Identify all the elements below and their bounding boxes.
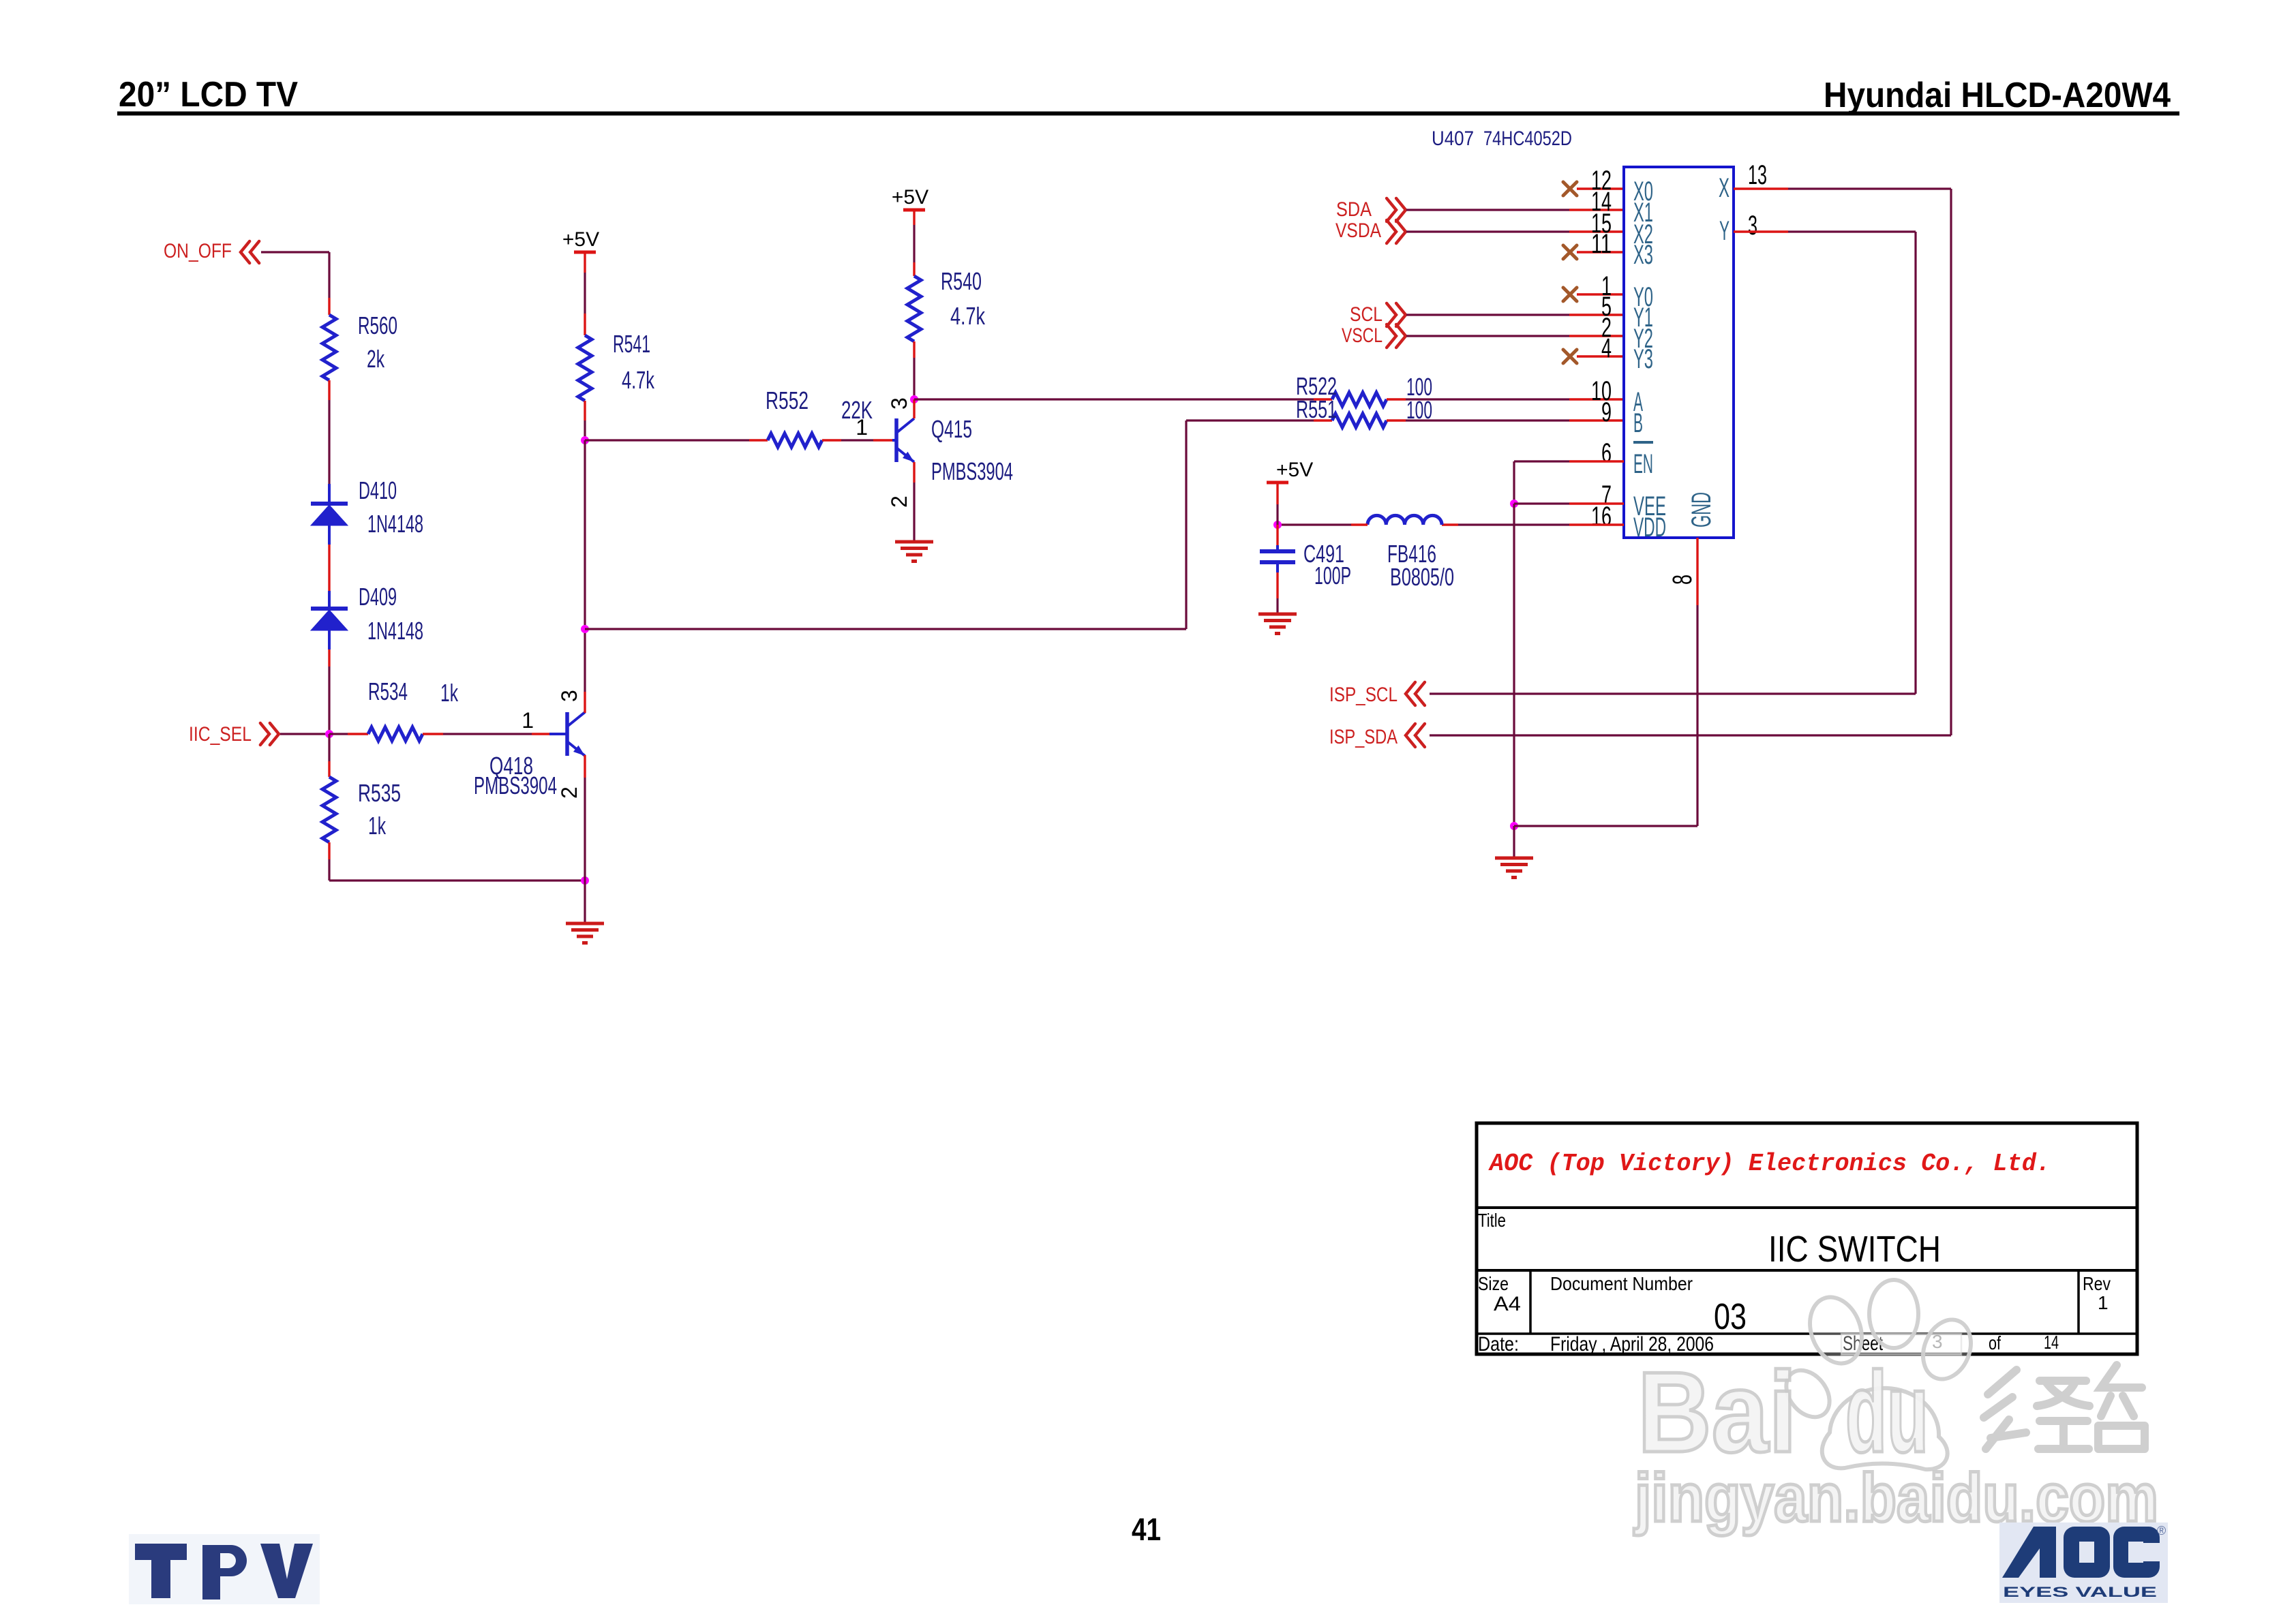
- IC U407 74HC4052D body: [1624, 167, 1734, 538]
- wire SCL to pin Y1: [1406, 313, 1569, 316]
- watermark chinese characters: [1984, 1365, 2145, 1449]
- svg-text:14: 14: [2044, 1332, 2059, 1353]
- pin stub D409 bottom: [328, 649, 330, 667]
- pin stub R540 top: [913, 262, 915, 276]
- pin stub Q418 emitter: [584, 755, 586, 778]
- junction Q415 collector node: [910, 395, 918, 403]
- wire R522 to pin A: [1406, 398, 1569, 400]
- pin stub U407 Y2: [1569, 335, 1624, 337]
- pin stub R552 left: [749, 439, 768, 441]
- wire EN down to VEE node: [1513, 461, 1515, 504]
- svg-text:4.7k: 4.7k: [950, 302, 986, 330]
- junction node B: [581, 625, 589, 633]
- watermark Baidu text: [1633, 1348, 2158, 1536]
- pin stub R541 bottom: [584, 401, 586, 420]
- svg-text:100: 100: [1406, 396, 1432, 424]
- svg-text:1k: 1k: [440, 679, 459, 707]
- ground below Q415: [895, 542, 933, 562]
- junction node R541/R552: [581, 436, 589, 444]
- header underline: [117, 112, 2179, 116]
- pin stub C491 top: [1276, 525, 1278, 545]
- pin stub U407 X2: [1569, 230, 1624, 232]
- ISP_SCL off-page arrow: [1406, 682, 1425, 705]
- wire node B across to R551 branch: [585, 628, 1186, 630]
- svg-text:X3: X3: [1633, 240, 1653, 270]
- no-connect X on pin Y3: [1563, 350, 1577, 363]
- +5V supply above C491: [1267, 481, 1288, 485]
- wire ISP_SCL row: [1430, 692, 1916, 694]
- pin stub Q418 base: [532, 733, 549, 735]
- svg-text:16: 16: [1591, 502, 1612, 532]
- wire X out right: [1788, 187, 1951, 189]
- logo TPV: [129, 1534, 320, 1604]
- wire D410 to D409: [328, 545, 330, 591]
- svg-text:of: of: [1989, 1332, 2001, 1353]
- wire up to R551 row: [1185, 420, 1187, 629]
- svg-text:R534: R534: [368, 677, 408, 705]
- junction ground node: [1510, 822, 1518, 830]
- svg-text:1: 1: [856, 415, 868, 440]
- wire D409 to IIC_SEL node: [328, 667, 330, 734]
- pin stub R552 right: [822, 439, 841, 441]
- svg-text:IIC_SEL: IIC_SEL: [189, 723, 252, 746]
- wire C491 to ground: [1276, 598, 1278, 614]
- wire ISP_SDA row: [1430, 734, 1951, 736]
- svg-text:B: B: [1633, 408, 1643, 438]
- svg-text:Date:: Date:: [1478, 1333, 1519, 1356]
- wire R551 to pin B: [1406, 419, 1569, 421]
- title block: [1477, 1123, 2137, 1354]
- +5V supply above R540: [903, 209, 925, 212]
- ground below C491: [1258, 614, 1297, 634]
- svg-text:EYES VALUE: EYES VALUE: [2003, 1585, 2157, 1600]
- ON_OFF off-page arrow: [241, 241, 259, 263]
- resistor R560 body: [322, 315, 336, 380]
- pin stub U407 VDD: [1569, 523, 1624, 525]
- wire bottom across to Q418 emitter: [329, 879, 585, 881]
- wire collector node to R522: [914, 398, 1314, 400]
- svg-text:Bai: Bai: [1637, 1348, 1797, 1476]
- svg-text:2: 2: [557, 786, 581, 799]
- pin stub U407 Y3: [1577, 355, 1624, 357]
- Q418 base lead: [549, 733, 567, 735]
- svg-text:13: 13: [1748, 160, 1767, 190]
- svg-text:9: 9: [1601, 397, 1612, 427]
- pin stub U407 X0: [1577, 187, 1624, 189]
- pin stub U407 X out: [1734, 187, 1788, 189]
- wire Q418 emitter down: [584, 778, 586, 881]
- junction EN/VEE node: [1510, 500, 1518, 508]
- resistor R552 body: [768, 433, 822, 447]
- svg-text:4.7k: 4.7k: [622, 366, 655, 394]
- wire VEE node down to ground node: [1513, 504, 1515, 826]
- svg-text:A4: A4: [1494, 1293, 1521, 1315]
- pin stub U407 pin B: [1569, 419, 1624, 421]
- svg-text:1k: 1k: [368, 812, 387, 840]
- pin stub U407 Y1: [1569, 313, 1624, 316]
- svg-text:GND: GND: [1687, 492, 1717, 527]
- svg-text:Title: Title: [1478, 1210, 1506, 1231]
- logo AOC: [1999, 1522, 2168, 1603]
- svg-text:R560: R560: [358, 311, 397, 339]
- pin stub U407 Y0: [1577, 293, 1624, 295]
- ground below U407: [1495, 858, 1533, 878]
- wire node A down to node B: [584, 440, 586, 629]
- svg-text:Q415: Q415: [931, 415, 972, 443]
- svg-text:PMBS3904: PMBS3904: [931, 457, 1013, 485]
- pin stub Q415 base: [873, 439, 892, 441]
- svg-text:+5V: +5V: [562, 228, 599, 251]
- wire R560 to D410: [328, 400, 330, 484]
- svg-text:2: 2: [887, 495, 911, 508]
- VSDA off-page arrow: [1387, 220, 1406, 243]
- svg-text:R552: R552: [766, 386, 809, 414]
- wire node A to R552: [585, 439, 749, 441]
- svg-text:Hyundai HLCD-A20W4: Hyundai HLCD-A20W4: [1824, 76, 2171, 115]
- wire ON_OFF horizontal: [261, 251, 329, 253]
- U407 EN overline: [1633, 441, 1653, 444]
- wire VSCL to pin Y2: [1406, 335, 1569, 337]
- svg-text:AOC (Top Victory) Electronics: AOC (Top Victory) Electronics Co., Ltd.: [1488, 1150, 2051, 1178]
- transistor Q415: [896, 418, 914, 462]
- pin stub FB416 left: [1351, 523, 1368, 525]
- wire IIC_SEL to node: [280, 733, 329, 735]
- wire GND pin to ground node: [1514, 825, 1697, 827]
- wire VDD to FB416: [1458, 523, 1569, 525]
- svg-text:U407: U407: [1432, 127, 1474, 150]
- svg-text:Document Number: Document Number: [1550, 1273, 1693, 1294]
- diode D409 anode lead: [328, 630, 331, 649]
- svg-text:+5V: +5V: [892, 186, 928, 209]
- pin stub R534 left: [348, 733, 368, 735]
- pin stub R522 left: [1314, 398, 1332, 400]
- pin stub R551 left: [1314, 419, 1332, 421]
- svg-text:3: 3: [1748, 211, 1757, 241]
- svg-text:EN: EN: [1633, 449, 1653, 479]
- pin stub R560 bottom: [328, 380, 330, 400]
- pin stub U407 pin A: [1569, 398, 1624, 400]
- svg-text:1: 1: [522, 708, 534, 733]
- svg-text:6: 6: [1601, 438, 1612, 468]
- wire +5V to R541: [584, 273, 586, 313]
- resistor R540 body: [907, 276, 921, 341]
- wire Y out right: [1788, 230, 1916, 232]
- ISP_SDA off-page arrow: [1406, 724, 1425, 747]
- svg-text:+5V: +5V: [1276, 459, 1313, 481]
- svg-text:11: 11: [1591, 229, 1612, 259]
- watermark baidu paw: [1777, 1280, 1979, 1469]
- svg-text:PMBS3904: PMBS3904: [474, 771, 557, 799]
- svg-text:1N4148: 1N4148: [367, 617, 423, 645]
- pin stub R540 bottom: [913, 341, 915, 358]
- svg-text:SCL: SCL: [1350, 303, 1383, 326]
- pin stub Q415 emitter: [913, 462, 915, 483]
- SCL off-page arrow: [1387, 303, 1406, 326]
- resistor R534 body: [368, 727, 423, 741]
- diode D410: [311, 504, 348, 525]
- IIC_SEL off-page arrow: [260, 723, 279, 745]
- junction emitter/ground node: [581, 876, 589, 885]
- pin stub R541 top: [584, 313, 586, 335]
- svg-text:®: ®: [2157, 1524, 2166, 1537]
- svg-text:ISP_SDA: ISP_SDA: [1329, 726, 1398, 748]
- no-connect X on pin X0: [1563, 182, 1577, 196]
- pin stub R560 top: [328, 298, 330, 315]
- wire node down to R535: [328, 734, 330, 761]
- svg-text:100P: 100P: [1314, 562, 1351, 590]
- resistor R535 body: [322, 777, 336, 842]
- svg-text:8: 8: [1667, 575, 1697, 585]
- pin stub R551 right: [1387, 419, 1406, 421]
- wire GND pin down: [1696, 605, 1698, 826]
- wire FB416 to +5V node: [1278, 523, 1351, 525]
- wire R552 to Q415 base: [841, 439, 873, 441]
- svg-text:R540: R540: [941, 267, 982, 295]
- pin stub +5V C491: [1276, 483, 1278, 504]
- wire node to ground: [584, 881, 586, 923]
- pin stub R535 bottom: [328, 842, 330, 859]
- svg-text:2k: 2k: [367, 345, 385, 373]
- svg-text:74HC4052D: 74HC4052D: [1483, 127, 1572, 150]
- wire +5V down to node: [1276, 504, 1278, 525]
- pin stub FB416 right: [1442, 523, 1458, 525]
- wire R534 to Q418 base: [443, 733, 532, 735]
- transistor Q418: [567, 712, 585, 756]
- no-connect X on pin Y0: [1563, 288, 1577, 301]
- svg-text:Size: Size: [1478, 1273, 1509, 1294]
- wire R541 to node A: [584, 420, 586, 440]
- svg-text:Y3: Y3: [1633, 344, 1653, 374]
- svg-text:X: X: [1719, 173, 1729, 203]
- pin stub Q418 collector: [584, 692, 586, 713]
- svg-text:VSCL: VSCL: [1342, 324, 1383, 347]
- svg-text:VSDA: VSDA: [1335, 219, 1381, 242]
- pin stub U407 Y out: [1734, 230, 1788, 232]
- svg-text:R541: R541: [613, 330, 650, 358]
- pin stub U407 X3: [1577, 251, 1624, 253]
- pin stub U407 GND pin 8: [1696, 538, 1698, 605]
- svg-text:VDD: VDD: [1633, 512, 1666, 542]
- wire +5V to R540: [913, 225, 915, 262]
- wire Y down to ISP_SCL row: [1914, 232, 1916, 694]
- svg-text:3: 3: [557, 690, 581, 702]
- svg-text:B0805/0: B0805/0: [1390, 563, 1454, 591]
- pin stub +5V R540: [913, 210, 915, 225]
- junction +5V/C491 node: [1273, 521, 1282, 529]
- wire EN left: [1514, 460, 1569, 462]
- wire Q418 collector up: [584, 629, 586, 692]
- diode D409: [311, 609, 348, 630]
- pin stub R535 top: [328, 761, 330, 777]
- svg-text:Y: Y: [1719, 216, 1729, 246]
- pin stub +5V R541: [584, 252, 586, 273]
- wire node to R534: [329, 733, 348, 735]
- wire to R551: [1186, 419, 1314, 421]
- resistor R541 body: [578, 335, 592, 401]
- pin stub U407 VEE: [1569, 502, 1624, 504]
- svg-text:ISP_SCL: ISP_SCL: [1329, 684, 1398, 706]
- junction IIC_SEL node: [325, 730, 333, 738]
- svg-text:SDA: SDA: [1336, 198, 1372, 221]
- svg-text:ON_OFF: ON_OFF: [164, 240, 232, 262]
- +5V supply above R541: [574, 251, 596, 254]
- diode D410 cathode lead: [328, 484, 331, 504]
- svg-text:3: 3: [887, 397, 911, 410]
- watermark sheet cell: [1841, 1334, 1961, 1355]
- svg-text:41: 41: [1132, 1512, 1161, 1547]
- pin stub C491 bottom: [1276, 572, 1278, 598]
- SDA off-page arrow: [1387, 198, 1406, 221]
- svg-text:IIC SWITCH: IIC SWITCH: [1768, 1229, 1941, 1270]
- wire Q415 emitter to ground: [913, 483, 915, 542]
- svg-text:D409: D409: [359, 583, 397, 611]
- wire VSDA to pin X2: [1406, 230, 1569, 232]
- wire R535 down: [328, 859, 330, 881]
- svg-text:4: 4: [1601, 333, 1612, 363]
- diode D410 anode lead: [328, 525, 331, 545]
- inductor FB416 body: [1368, 515, 1442, 525]
- wire R540 to collector node: [913, 358, 915, 399]
- pin stub R534 right: [423, 733, 443, 735]
- wire X down to ISP_SDA row: [1950, 189, 1952, 735]
- svg-text:R535: R535: [358, 779, 401, 807]
- no-connect X on pin X3: [1563, 245, 1577, 259]
- pin stub R522 right: [1387, 398, 1406, 400]
- svg-text:du: du: [1845, 1348, 1929, 1476]
- wire ON_OFF down to R560: [328, 252, 330, 298]
- pin stub U407 EN: [1569, 460, 1624, 462]
- resistor R522 body: [1332, 393, 1387, 406]
- VSCL off-page arrow: [1387, 324, 1406, 348]
- wire SDA to pin X1: [1406, 209, 1569, 211]
- svg-text:D410: D410: [359, 476, 397, 504]
- Q415 base lead: [892, 439, 896, 442]
- pin stub Q415 collector: [913, 399, 915, 418]
- svg-text:20” LCD TV: 20” LCD TV: [119, 75, 298, 114]
- svg-text:03: 03: [1714, 1296, 1747, 1337]
- svg-text:1N4148: 1N4148: [367, 510, 423, 538]
- svg-text:1: 1: [2098, 1292, 2109, 1313]
- resistor R551 body: [1332, 414, 1387, 427]
- svg-text:Rev: Rev: [2083, 1273, 2111, 1294]
- ground below Q418: [566, 923, 604, 943]
- pin stub U407 X1: [1569, 209, 1624, 211]
- svg-text:R551: R551: [1296, 395, 1337, 423]
- wire VEE left: [1514, 502, 1569, 504]
- wire to ground symbol: [1513, 826, 1515, 858]
- capacitor C491 body: [1260, 545, 1295, 572]
- diode D409 cathode lead: [328, 591, 331, 609]
